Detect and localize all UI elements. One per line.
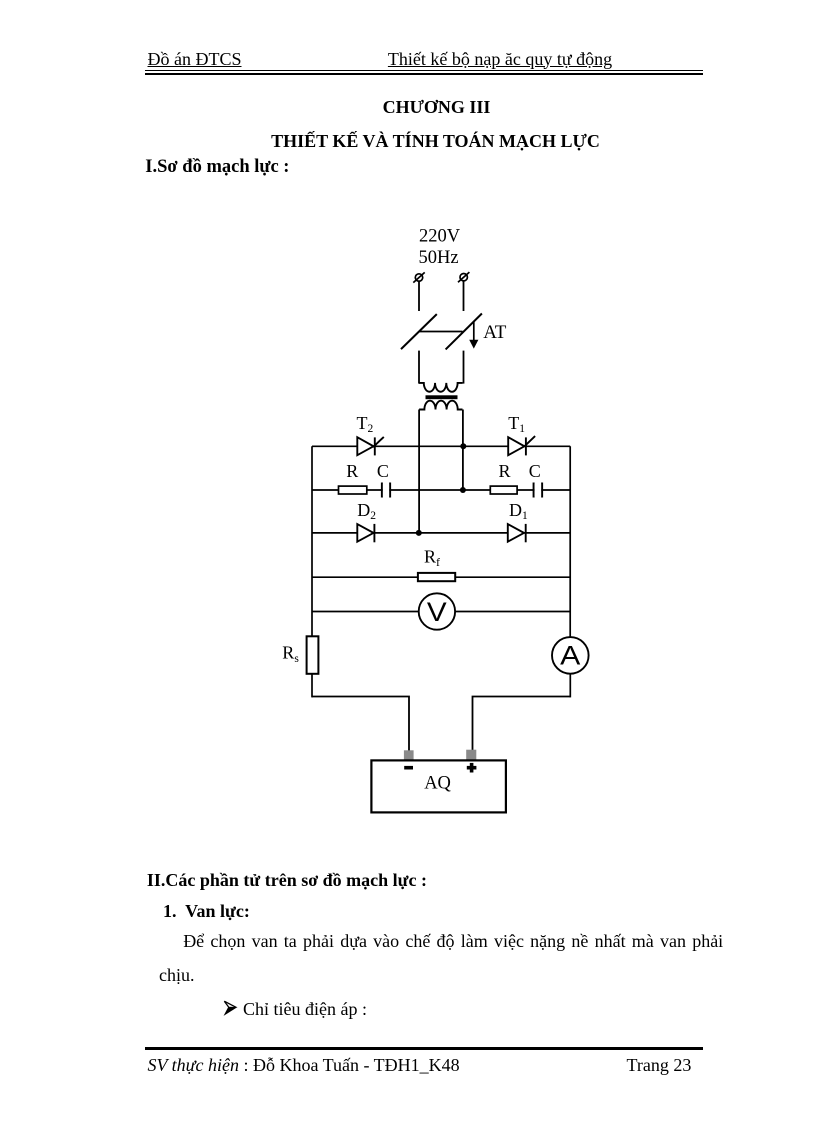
diode D2: [357, 524, 374, 542]
wire Rs to bottom: [311, 674, 313, 698]
paragraph line 2: [159, 966, 195, 984]
chapter title: [0, 98, 816, 116]
AT arrow: [469, 322, 478, 349]
footer right: [627, 1056, 692, 1074]
transformer primary winding: [419, 383, 463, 392]
thyristor T2: [357, 437, 384, 456]
RC row wire: [312, 489, 570, 491]
terminal phase L1: [413, 272, 424, 282]
capacitor C right: [534, 483, 543, 498]
header left text: [148, 50, 242, 68]
bullet arrow: [223, 1000, 238, 1016]
svg-text:D2: D2: [357, 500, 376, 522]
wire secondary right lead down to RC row: [462, 410, 464, 491]
battery AQ body: [371, 760, 506, 812]
svg-text:C: C: [529, 461, 541, 481]
voltmeter row wire: [312, 611, 570, 613]
capacitor C left: [382, 483, 390, 498]
node at diode row left lead: [416, 530, 422, 536]
svg-text:220V: 220V: [419, 227, 461, 247]
node at RC row right lead: [460, 487, 466, 493]
bridge left edge wire: [311, 446, 313, 636]
autotransformer AT slash left: [401, 314, 437, 349]
section II heading: [147, 871, 427, 889]
thyristor T1: [508, 436, 535, 455]
svg-text:R: R: [499, 461, 511, 481]
resistor Rs: [307, 636, 319, 674]
header rule thin: [145, 70, 703, 72]
ammeter A: [552, 637, 589, 674]
resistor R left (snubber): [339, 486, 367, 494]
minus sign: [404, 766, 413, 770]
wire L2 to transformer: [463, 351, 465, 384]
diode row wire: [312, 532, 570, 534]
autotransformer AT slash right: [446, 314, 482, 350]
wire L1 down: [418, 282, 420, 312]
svg-text:R: R: [346, 461, 358, 481]
svg-text:D1: D1: [509, 500, 528, 522]
svg-text:AT: AT: [483, 322, 507, 343]
wire A to bottom: [569, 674, 571, 698]
svg-text:T2: T2: [357, 413, 374, 435]
wire L1 to transformer: [418, 351, 420, 384]
section I heading: [145, 158, 289, 177]
header right text: [388, 50, 612, 68]
svg-text:V: V: [427, 597, 447, 627]
svg-text:T1: T1: [508, 413, 525, 435]
header rule thick: [145, 73, 703, 75]
svg-text:50Hz: 50Hz: [419, 248, 459, 268]
bottom left wire: [312, 697, 409, 751]
svg-text:Rs: Rs: [282, 642, 299, 665]
wire secondary left lead down to diode row: [418, 410, 420, 533]
bullet text: [243, 1000, 367, 1018]
diode D1: [508, 524, 526, 542]
wire L2 down: [463, 281, 465, 311]
node at thyristor row right lead: [460, 443, 466, 449]
freewheeling row wire: [312, 576, 570, 578]
thyristor row wire: [312, 445, 570, 447]
transformer core: [426, 395, 458, 399]
transformer secondary winding: [419, 401, 462, 410]
subsection 1: [163, 902, 250, 920]
voltmeter V: [419, 593, 455, 629]
resistor Rf: [418, 573, 455, 581]
resistor R right (snubber): [490, 486, 517, 494]
bridge right edge wire: [569, 446, 571, 637]
svg-text:AQ: AQ: [424, 773, 451, 793]
AT wiper bar: [419, 331, 462, 333]
chapter subtitle: [0, 132, 816, 150]
footer rule: [145, 1047, 703, 1050]
bottom right wire: [473, 697, 571, 751]
battery terminal negative: [404, 750, 414, 760]
terminal phase L2: [458, 272, 469, 282]
svg-text:Rf: Rf: [424, 546, 440, 569]
battery terminal positive: [466, 750, 476, 761]
paragraph line 1: [183, 932, 723, 950]
svg-text:C: C: [377, 461, 389, 481]
plus sign: [467, 763, 477, 773]
svg-text:A: A: [560, 640, 580, 670]
footer left: [148, 1056, 460, 1074]
